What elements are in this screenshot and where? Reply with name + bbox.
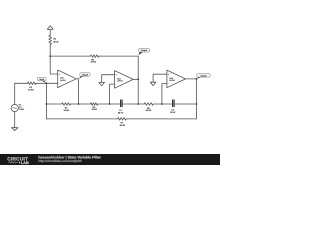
resistor R5	[90, 55, 99, 58]
junction OA3 inverting input at row	[161, 103, 163, 105]
resistor R7	[118, 118, 127, 121]
wire bottom rail	[46, 118, 117, 120]
wire V1 down to ground	[14, 112, 16, 128]
wire R7 to right corner	[126, 118, 196, 120]
resistor R4	[49, 35, 52, 44]
wire OA2 plus input to ground	[102, 75, 115, 83]
wire R3 to C1	[98, 103, 121, 105]
wire R4 down to OA1 plus input	[50, 44, 58, 74]
tag Output OA2	[138, 49, 149, 56]
op-amp OA3	[167, 70, 186, 88]
junction OA2 output	[137, 78, 139, 80]
wire R5 to corner down	[99, 56, 138, 79]
resistor R6	[144, 103, 153, 106]
resistor R2	[62, 103, 71, 106]
wire OA2 minus input down to row	[110, 84, 115, 104]
wire OA2 output junction	[133, 79, 138, 104]
junction on R4 feedback line	[49, 55, 51, 57]
wire C2 to right corner	[174, 103, 196, 105]
junction input node at row	[46, 103, 48, 105]
wire V1 up to R1	[15, 83, 28, 104]
resistor R3	[90, 103, 97, 106]
wire OA3 minus input down to row	[162, 84, 167, 104]
junction input node	[46, 82, 48, 84]
tag Input	[37, 77, 46, 83]
wire R1 to OA1 minus input	[36, 82, 58, 84]
footer bar	[0, 154, 220, 165]
op-amp OA2	[115, 71, 134, 89]
wire input node down left rail	[45, 83, 47, 119]
wire feedback line to OA2 output	[50, 55, 90, 57]
junction OA3 output	[196, 78, 198, 80]
tag Output OA1	[79, 73, 90, 79]
junction OA2 output at row	[137, 103, 139, 105]
op-amp texts	[59, 73, 175, 86]
supply arrow	[47, 26, 53, 30]
wire OA3 plus input to ground	[153, 74, 167, 82]
resistor R1	[27, 82, 36, 85]
wire row left segment	[46, 103, 61, 105]
wire OA3 output to right rail	[186, 79, 197, 119]
ground at OA3	[150, 82, 156, 85]
junction OA3 output at row	[196, 103, 198, 105]
wire OA1 output down to row	[76, 79, 78, 104]
tag Output OA3	[197, 74, 211, 79]
ground at OA2	[99, 82, 105, 85]
wire arrow to R4	[49, 29, 51, 35]
op-amp OA1	[58, 70, 76, 88]
wire R6 to C2	[153, 103, 172, 105]
junction OA2 inverting input at row	[109, 103, 111, 105]
svg-text:http://circuitlab.com/c/zq5p95: http://circuitlab.com/c/zq5p95	[38, 159, 82, 163]
svg-text:LAB: LAB	[21, 161, 29, 165]
capacitor C2	[173, 100, 175, 108]
wire R2 to R3	[71, 103, 91, 105]
ground under V1	[12, 128, 19, 131]
junction OA1 output at row	[78, 103, 80, 105]
labels	[19, 38, 176, 127]
capacitor C1	[121, 100, 123, 108]
wire C1 to OA2 out drop	[122, 103, 144, 105]
voltage source V1	[11, 104, 18, 111]
